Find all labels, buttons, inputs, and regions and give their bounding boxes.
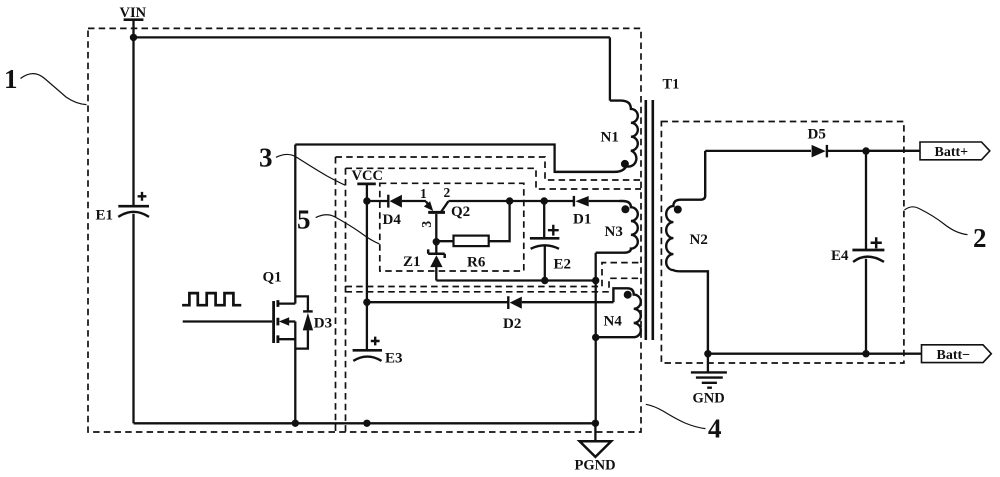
junction N4 bottom bbox=[592, 334, 599, 341]
junction Q1 source at rail bbox=[292, 420, 299, 427]
wire VCC node to D4 bbox=[367, 200, 388, 202]
resistor R6 bbox=[436, 201, 509, 271]
ground PGND bbox=[575, 423, 616, 473]
junction Q2 base node bbox=[433, 238, 440, 245]
wire output bottom rail bbox=[708, 353, 922, 355]
svg-text:T1: T1 bbox=[663, 77, 680, 93]
capacitor E1 bbox=[96, 192, 150, 224]
svg-text:E3: E3 bbox=[385, 351, 403, 367]
junction VCC node bbox=[363, 197, 370, 204]
svg-text:3: 3 bbox=[419, 221, 434, 228]
svg-text:VCC: VCC bbox=[352, 168, 383, 184]
svg-text:Q2: Q2 bbox=[451, 204, 470, 220]
diode D1 bbox=[544, 196, 619, 228]
junction VCC/D2 bbox=[363, 299, 370, 306]
svg-text:1: 1 bbox=[4, 64, 18, 94]
junction E4 bottom bbox=[862, 350, 869, 357]
zener Z1 bbox=[403, 242, 445, 281]
junction GND node bbox=[704, 350, 711, 357]
transistor Q1 bbox=[263, 270, 296, 343]
capacitor E3 bbox=[353, 337, 403, 367]
junction VIN bbox=[130, 34, 137, 41]
diode D2 bbox=[367, 296, 614, 332]
winding N3 bbox=[596, 201, 638, 253]
svg-text:E4: E4 bbox=[831, 248, 849, 264]
svg-text:D4: D4 bbox=[383, 212, 402, 228]
dashed box 1 bbox=[88, 28, 641, 432]
svg-text:E1: E1 bbox=[96, 208, 114, 224]
junction E4 top bbox=[862, 147, 869, 154]
svg-text:PGND: PGND bbox=[575, 458, 616, 474]
svg-text:N2: N2 bbox=[690, 232, 708, 248]
svg-text:VIN: VIN bbox=[120, 5, 147, 21]
svg-text:2: 2 bbox=[444, 185, 451, 200]
wire Q2 collector row bbox=[448, 200, 544, 202]
svg-text:D2: D2 bbox=[503, 316, 521, 332]
capacitor E4 bbox=[831, 151, 884, 354]
svg-text:GND: GND bbox=[693, 391, 725, 407]
svg-text:R6: R6 bbox=[467, 255, 486, 271]
wire drain to transformer bbox=[295, 145, 618, 172]
svg-text:5: 5 bbox=[297, 205, 311, 235]
diode D5 bbox=[705, 127, 920, 158]
dashed box 5 bbox=[380, 183, 524, 271]
svg-text:D3: D3 bbox=[314, 316, 332, 332]
wire left vertical to E1 bbox=[132, 37, 134, 206]
svg-text:N3: N3 bbox=[605, 224, 623, 240]
svg-text:N1: N1 bbox=[601, 130, 619, 146]
leader line to box 4 bbox=[646, 404, 706, 428]
wire D4 to Q2 bbox=[402, 200, 426, 202]
wire VCC vertical bbox=[366, 201, 368, 350]
wire E1 bottom to rail bbox=[132, 214, 134, 423]
winding N2 bbox=[666, 151, 708, 354]
VCC terminal bar bbox=[357, 182, 376, 185]
capacitor E2 bbox=[530, 201, 571, 273]
wire E2 bottom bbox=[544, 246, 546, 281]
svg-text:N4: N4 bbox=[604, 314, 623, 330]
wire gate lead bbox=[183, 320, 273, 322]
svg-text:Q1: Q1 bbox=[263, 270, 282, 286]
junction E2 top bbox=[541, 197, 548, 204]
svg-text:Z1: Z1 bbox=[403, 254, 421, 270]
dashed box 4 bbox=[336, 157, 642, 432]
diode D3 bbox=[295, 296, 332, 348]
wire VIN stem bbox=[132, 20, 134, 38]
leader line to box 5 bbox=[316, 215, 380, 244]
junction bottom rail right end bbox=[592, 420, 599, 427]
wire Q1 source down bbox=[294, 322, 296, 424]
wire bottom rail bbox=[134, 422, 596, 424]
svg-text:4: 4 bbox=[708, 414, 722, 444]
ground GND bbox=[691, 354, 727, 407]
svg-text:2: 2 bbox=[973, 223, 987, 253]
svg-text:D1: D1 bbox=[573, 212, 591, 228]
winding N1 bbox=[555, 37, 638, 172]
dashed box 2 bbox=[661, 122, 904, 364]
leader line to box 1 bbox=[21, 74, 87, 105]
junction E2 bottom bbox=[541, 277, 548, 284]
wire VCC stem bbox=[366, 184, 368, 201]
svg-text:E2: E2 bbox=[554, 257, 572, 273]
svg-text:Batt−: Batt− bbox=[937, 348, 971, 363]
junction E3 bottom bbox=[363, 420, 370, 427]
wire zener rail bbox=[436, 279, 595, 281]
wire N3 bottom vertical bbox=[595, 253, 597, 424]
wire Q1 drain bbox=[294, 145, 296, 304]
junction R6/collector bbox=[506, 197, 513, 204]
terminal Batt+ bbox=[866, 142, 990, 160]
transformer T1 core bbox=[646, 100, 653, 340]
terminal Batt- bbox=[922, 345, 992, 363]
transistor Q2 bbox=[419, 185, 470, 242]
wire top rail bbox=[134, 36, 610, 38]
leader line to box 2 bbox=[905, 207, 968, 235]
winding N4 bbox=[596, 288, 641, 337]
junction rail to N windings bbox=[592, 277, 599, 284]
svg-text:D5: D5 bbox=[808, 127, 826, 143]
svg-text:Batt+: Batt+ bbox=[935, 145, 969, 160]
VIN terminal bar bbox=[124, 18, 144, 21]
svg-text:1: 1 bbox=[420, 186, 427, 201]
leader line to box 3 bbox=[276, 154, 345, 185]
dashed box 3 bbox=[346, 168, 642, 432]
diode D4 bbox=[383, 195, 402, 228]
svg-text:3: 3 bbox=[259, 142, 273, 172]
pulse source symbol bbox=[182, 293, 241, 305]
